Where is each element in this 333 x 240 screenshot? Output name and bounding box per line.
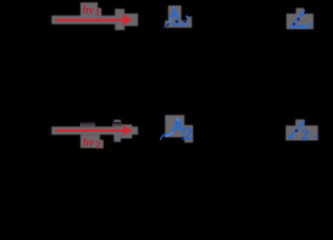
svg-text:2: 2 — [301, 128, 309, 144]
svg-text:2: 2 — [184, 123, 193, 143]
svg-text:hν: hν — [83, 137, 95, 149]
svg-text:hν: hν — [82, 4, 94, 16]
svg-text:1: 1 — [95, 7, 100, 18]
svg-text:2: 2 — [95, 140, 100, 151]
